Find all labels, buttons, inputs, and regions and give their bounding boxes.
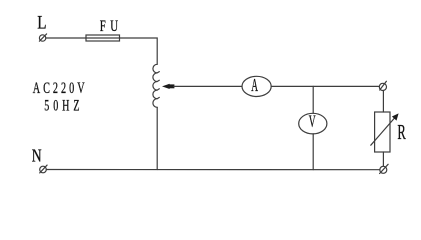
terminal output top [379, 81, 386, 90]
svg-text:A: A [251, 76, 258, 96]
wiper arrow tap of autotransformer [162, 84, 174, 89]
svg-text:V: V [309, 112, 316, 131]
autotransformer winding T [153, 64, 159, 107]
rheostat arrow [371, 113, 399, 145]
wire L terminal to fuse [46, 37, 86, 39]
wire tap to ammeter [174, 85, 242, 87]
fuse FU [86, 35, 120, 41]
svg-text:N: N [32, 147, 42, 166]
svg-text:FU: FU [100, 17, 123, 35]
svg-text:L: L [37, 12, 46, 33]
terminal output bottom [380, 164, 389, 173]
wire rheostat to bottom terminal [382, 152, 384, 166]
wire winding bottom to bottom rail [156, 107, 158, 169]
rheostat R body [375, 112, 390, 152]
wire ammeter to terminal [271, 85, 379, 87]
voltmeter V [299, 113, 327, 134]
svg-text:50HZ: 50HZ [44, 96, 83, 114]
bottom rail wire N [46, 169, 380, 171]
svg-text:AC220V: AC220V [33, 79, 88, 97]
wire terminal to rheostat [382, 91, 384, 113]
terminal N (neutral input) [40, 165, 47, 173]
terminal L (phase input) [39, 34, 46, 41]
wire fuse to corner [120, 38, 158, 64]
svg-text:R: R [397, 121, 406, 144]
wire voltmeter to bottom rail [312, 134, 314, 170]
node tap of voltmeter branch [312, 86, 314, 113]
ammeter A [242, 76, 271, 96]
